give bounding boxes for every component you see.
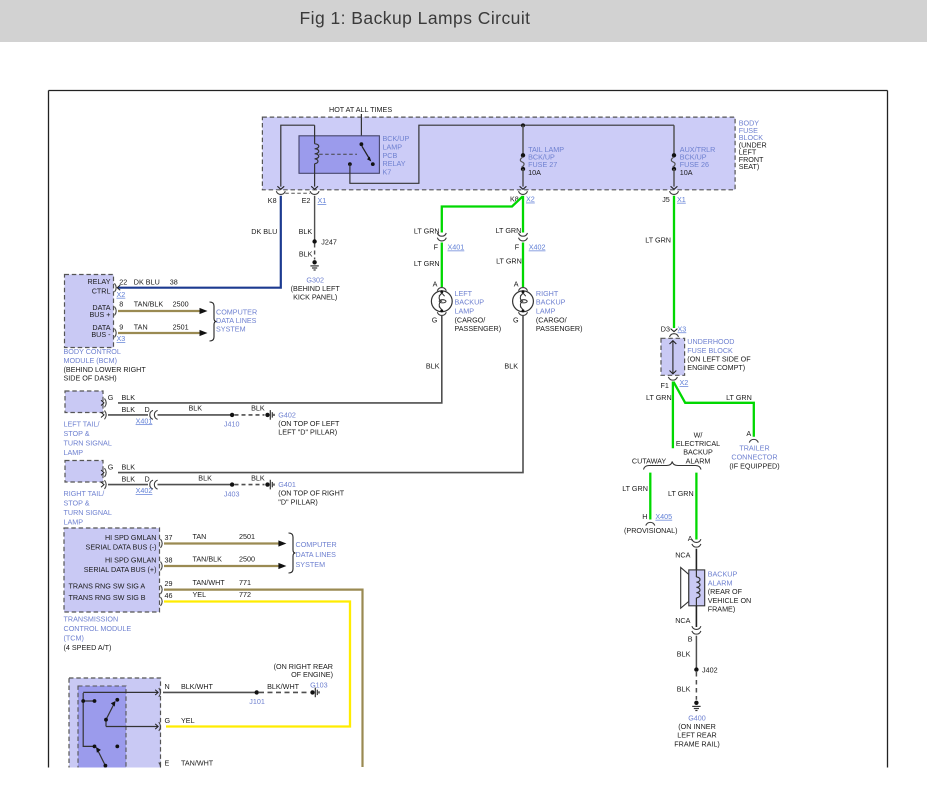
label: DK BLU (251, 227, 277, 236)
svg-text:STOP &: STOP & (64, 499, 90, 508)
svg-text:(PROVISIONAL): (PROVISIONAL) (624, 526, 678, 535)
svg-text:BLK: BLK (198, 473, 212, 482)
svg-text:G302: G302 (306, 275, 324, 284)
svg-text:A: A (433, 279, 438, 288)
right tail pin D wire BLK (101, 475, 150, 489)
label: G401 (ON TOP OF RIGHT D PILLAR) (278, 480, 345, 506)
svg-text:K8: K8 (268, 196, 277, 205)
svg-text:J410: J410 (224, 420, 240, 429)
switch inner dashed box (78, 686, 126, 775)
label: LEFT TAIL/STOP & TURN SIGNAL LAMP (64, 419, 112, 457)
svg-text:ENGINE COMPT): ENGINE COMPT) (687, 363, 745, 372)
svg-text:(BEHIND LOWER RIGHT: (BEHIND LOWER RIGHT (64, 365, 147, 374)
label: G302 (BEHIND LEFT KICK PANEL) (291, 275, 341, 301)
svg-text:BLK: BLK (299, 250, 313, 259)
svg-text:G401: G401 (278, 480, 296, 489)
svg-text:LEFT TAIL/: LEFT TAIL/ (64, 419, 100, 428)
svg-text:LT GRN: LT GRN (668, 489, 694, 498)
svg-text:DATA LINES: DATA LINES (296, 550, 337, 559)
wire: BLK left lamp ground to left tail lamp (118, 316, 442, 403)
BCM pin 22 (RELAY CTRL) (115, 277, 178, 292)
wire: BLK right lamp ground to right tail lamp (118, 316, 523, 473)
svg-text:38: 38 (165, 556, 173, 565)
right tail pin G (101, 463, 135, 477)
left tail pin G (101, 393, 135, 407)
svg-text:PASSENGER): PASSENGER) (536, 324, 583, 333)
svg-text:(ON INNER: (ON INNER (678, 722, 716, 731)
label: fuse 27 (528, 145, 564, 177)
label: fuse 26 (680, 145, 716, 177)
wire: BLK from E2 to J247 (299, 196, 315, 242)
label: relay name (383, 134, 410, 177)
svg-text:ELECTRICAL: ELECTRICAL (676, 439, 720, 448)
svg-text:LAMP: LAMP (455, 307, 475, 316)
svg-text:YEL: YEL (193, 590, 207, 599)
svg-text:NCA: NCA (675, 551, 690, 560)
svg-text:2501: 2501 (173, 323, 189, 332)
svg-text:FRAME RAIL): FRAME RAIL) (674, 739, 720, 748)
svg-text:BACKUP: BACKUP (708, 570, 738, 579)
svg-text:X405: X405 (655, 512, 672, 521)
svg-text:FRAME): FRAME) (708, 605, 736, 614)
svg-text:BUS +: BUS + (90, 310, 111, 319)
svg-text:H: H (642, 512, 647, 521)
connector X2 pin K8 (fuse 27 output) (510, 186, 535, 203)
connector X402 (tail, in-line) (136, 480, 158, 495)
svg-text:J402: J402 (702, 665, 718, 674)
svg-text:(CARGO/: (CARGO/ (455, 315, 486, 324)
underhood fuse block (dashed box) (661, 338, 685, 375)
svg-text:BLK/WHT: BLK/WHT (181, 682, 214, 691)
wire: LT GRN provisional branch (622, 473, 650, 520)
svg-text:9: 9 (119, 323, 123, 332)
svg-text:TRANS RNG SW SIG A: TRANS RNG SW SIG A (69, 582, 146, 591)
svg-text:22: 22 (119, 277, 127, 286)
label: LEFT BACKUP LAMP (CARGO/PASSENGER) (455, 289, 502, 333)
svg-text:2500: 2500 (173, 300, 189, 309)
switch contacts (81, 693, 119, 772)
brace: computer data lines system (BCM) (210, 302, 217, 341)
svg-text:"D" PILLAR): "D" PILLAR) (278, 497, 317, 506)
label: BODY FUSE BLOCK (UNDER LEFT FRONT SEAT) (739, 119, 767, 172)
svg-text:10A: 10A (528, 168, 541, 177)
wire: LT GRN from J5 to underhood fuse block (645, 196, 674, 328)
svg-text:TAN: TAN (134, 323, 148, 332)
svg-text:29: 29 (165, 579, 173, 588)
label: COMPUTER DATA LINES SYSTEM (216, 308, 257, 334)
title bar: Fig 1 Backup Lamps Circuit (0, 0, 927, 42)
svg-text:2501: 2501 (239, 532, 255, 541)
right tail/stop lamp (dashed box) (65, 461, 103, 483)
svg-text:TAN: TAN (193, 532, 207, 541)
label: UNDERHOOD FUSE BLOCK (ON LEFT SIDE OF ENGINE COMPT) (687, 337, 751, 372)
svg-text:RIGHT TAIL/: RIGHT TAIL/ (64, 489, 105, 498)
brace: cutaway options (horizontal) (644, 462, 702, 470)
svg-text:LAMP: LAMP (64, 518, 84, 527)
wire dashed BLK to splice G402 (235, 404, 265, 415)
svg-text:W/: W/ (694, 430, 703, 439)
svg-text:LEFT REAR: LEFT REAR (677, 731, 716, 740)
TCM pin 29 wire TAN/WHT 771 to switch pin E (161, 578, 363, 767)
park/neutral position switch (outer dashed box, cropped) (69, 678, 161, 775)
svg-text:LT GRN: LT GRN (496, 257, 522, 266)
label: RIGHT BACKUP LAMP (CARGO/PASSENGER) (536, 289, 583, 333)
label: TRANSMISSION CONTROL MODULE (TCM) (4 SPEED A/T) (64, 614, 132, 652)
svg-text:(REAR OF: (REAR OF (708, 587, 743, 596)
fuse F27 (TAIL LAMP BCK/UP FUSE 27 10A) (520, 125, 525, 186)
splice/ground G402 (265, 410, 274, 420)
junction J410 (224, 413, 240, 429)
left backup lamp (431, 279, 452, 324)
wire: dashed BLK to ground (299, 244, 315, 260)
svg-text:D: D (145, 405, 150, 414)
connector X401 (in-line) (434, 233, 465, 252)
svg-text:38: 38 (170, 277, 178, 286)
switch pin G (YEL) (106, 716, 195, 731)
svg-text:LT GRN: LT GRN (646, 393, 672, 402)
svg-text:BLK: BLK (677, 685, 691, 694)
svg-text:BACKUP: BACKUP (536, 298, 566, 307)
underhood fuse element (670, 341, 677, 374)
connector pin B (backup alarm) (688, 626, 701, 643)
svg-text:TRANS RNG SW SIG B: TRANS RNG SW SIG B (69, 593, 146, 602)
left tail pin D wire BLK (101, 405, 150, 419)
svg-text:10A: 10A (680, 168, 693, 177)
wire: LT GRN connectors to lamp terminals (442, 243, 523, 288)
svg-text:(ON TOP OF LEFT: (ON TOP OF LEFT (278, 419, 340, 428)
svg-text:X2: X2 (680, 378, 689, 387)
svg-text:X402: X402 (136, 486, 153, 495)
svg-text:RELAY: RELAY (87, 277, 110, 286)
label: G402 (ON TOP OF LEFT LEFT D PILLAR) (278, 410, 340, 436)
wire BLK to junction J410 (158, 404, 233, 415)
wire dashed BLK to ground G400 (677, 672, 697, 700)
svg-text:X402: X402 (529, 243, 546, 252)
svg-text:CONNECTOR: CONNECTOR (731, 452, 777, 461)
svg-text:LT GRN: LT GRN (414, 226, 440, 235)
BCM internal pin names (87, 277, 111, 339)
svg-text:BLK: BLK (122, 405, 136, 414)
wire: battery feed into relay switch (360, 114, 362, 143)
svg-text:B: B (688, 635, 693, 644)
wire dashed BLK to splice G401 (235, 473, 265, 484)
svg-text:X401: X401 (448, 243, 465, 252)
ground G400 (692, 701, 700, 711)
svg-text:VEHICLE ON: VEHICLE ON (708, 596, 752, 605)
svg-text:DK BLU: DK BLU (134, 277, 160, 286)
svg-text:F: F (515, 243, 520, 252)
svg-text:STOP &: STOP & (64, 429, 90, 438)
TCM pin 38 wire TAN/BLK 2500 (161, 555, 287, 571)
svg-text:HOT AT ALL TIMES: HOT AT ALL TIMES (329, 105, 392, 114)
node: HOT AT ALL TIMES (329, 105, 392, 114)
trailer connector pin A (746, 429, 758, 443)
svg-text:BLK: BLK (426, 362, 440, 371)
BCM pin 8 DATA BUS + wire TAN/BLK 2500 (115, 300, 208, 316)
svg-text:TAN/BLK: TAN/BLK (134, 300, 164, 309)
svg-text:2500: 2500 (239, 555, 255, 564)
svg-text:RIGHT: RIGHT (536, 289, 559, 298)
svg-text:TURN SIGNAL: TURN SIGNAL (64, 508, 112, 517)
svg-text:J101: J101 (249, 697, 265, 706)
svg-text:772: 772 (239, 590, 251, 599)
svg-text:A: A (688, 534, 693, 543)
svg-text:OF ENGINE): OF ENGINE) (291, 670, 333, 679)
svg-text:SERIAL DATA BUS (+): SERIAL DATA BUS (+) (84, 565, 157, 574)
svg-text:X2: X2 (117, 290, 126, 299)
svg-text:BLK: BLK (189, 404, 203, 413)
svg-text:CUTAWAY: CUTAWAY (632, 456, 667, 465)
svg-text:YEL: YEL (181, 716, 195, 725)
svg-text:LEFT "D" PILLAR): LEFT "D" PILLAR) (278, 428, 337, 437)
svg-text:G400: G400 (688, 713, 706, 722)
svg-text:BACKUP: BACKUP (683, 448, 713, 457)
svg-text:HI SPD GMLAN: HI SPD GMLAN (105, 556, 157, 565)
svg-text:N: N (165, 682, 170, 691)
svg-text:(4 SPEED A/T): (4 SPEED A/T) (64, 643, 112, 652)
svg-text:KICK PANEL): KICK PANEL) (293, 293, 337, 302)
switch pin N wire BLK/WHT to J101 (83, 682, 257, 697)
svg-text:SERIAL DATA BUS (-): SERIAL DATA BUS (-) (86, 543, 157, 552)
svg-text:X1: X1 (677, 195, 686, 204)
svg-text:LT GRN: LT GRN (622, 484, 648, 493)
svg-text:X3: X3 (117, 334, 126, 343)
svg-text:TAN/BLK: TAN/BLK (193, 555, 223, 564)
svg-text:J247: J247 (321, 237, 337, 246)
svg-text:X1: X1 (318, 196, 327, 205)
TCM pin 37 wire TAN 2501 (161, 532, 287, 548)
svg-text:G103: G103 (310, 680, 328, 689)
svg-text:TAN/WHT: TAN/WHT (193, 578, 226, 587)
label: TRAILER CONNECTOR (IF EQUIPPED) (729, 443, 779, 470)
junction J403 (224, 482, 240, 498)
fuse F26 (AUX/TRLR BCK/UP FUSE 26 10A) (671, 125, 676, 186)
svg-text:A: A (514, 279, 519, 288)
svg-text:A: A (746, 429, 751, 438)
diagram border frame (49, 91, 888, 768)
connector X401 (tail, in-line) (136, 410, 158, 425)
connector pin A (backup alarm) (688, 534, 701, 547)
wire BLK to junction J403 (158, 473, 233, 484)
wire: LT GRN split below F1 (673, 382, 754, 449)
svg-text:8: 8 (119, 300, 123, 309)
wire: DK BLU relay control to BCM pin 22 (118, 196, 281, 288)
relay K7 (BCK/UP LAMP PCB RELAY) (281, 125, 380, 186)
svg-text:DK BLU: DK BLU (251, 227, 277, 236)
svg-text:BLK: BLK (251, 473, 265, 482)
wire NCA below alarm (675, 606, 696, 627)
wire: relay switch output to fuses feed (350, 125, 674, 183)
svg-text:LT GRN: LT GRN (414, 259, 440, 268)
svg-text:G: G (432, 315, 438, 324)
connector X402 (in-line) (515, 233, 546, 252)
svg-text:TRANSMISSION: TRANSMISSION (64, 614, 119, 623)
svg-text:CTRL: CTRL (92, 286, 111, 295)
svg-text:HI SPD GMLAN: HI SPD GMLAN (105, 533, 157, 542)
svg-text:SEAT): SEAT) (739, 162, 760, 171)
svg-text:E2: E2 (302, 196, 311, 205)
connector X2 pin F1 (661, 377, 689, 390)
svg-text:SYSTEM: SYSTEM (296, 560, 326, 569)
wire BLK to J402 (677, 636, 697, 670)
svg-text:(TCM): (TCM) (64, 634, 84, 643)
left tail/stop lamp (dashed box) (65, 391, 103, 413)
splice/ground G401 (265, 480, 274, 490)
svg-text:BLK: BLK (122, 463, 136, 472)
label: G400 (ON INNER LEFT REAR FRAME RAIL) (674, 713, 720, 748)
ground G302 (310, 260, 318, 270)
body control module BCM (dashed box) (65, 275, 114, 348)
svg-text:CONTROL MODULE: CONTROL MODULE (64, 624, 132, 633)
label: BACKUP ALARM (REAR OF VEHICLE ON FRAME) (708, 570, 752, 614)
junction J247 (312, 237, 336, 246)
svg-text:MODULE (BCM): MODULE (BCM) (64, 356, 118, 365)
svg-text:J5: J5 (662, 195, 670, 204)
svg-text:COMPUTER: COMPUTER (296, 540, 337, 549)
svg-text:46: 46 (165, 591, 173, 600)
label LT GRN (x4) (414, 226, 522, 268)
svg-text:J403: J403 (224, 489, 240, 498)
svg-text:SYSTEM: SYSTEM (216, 325, 246, 334)
wire NCA to alarm (675, 549, 696, 570)
svg-text:(BEHIND LEFT: (BEHIND LEFT (291, 284, 341, 293)
svg-text:Fig 1: Backup Lamps Circuit: Fig 1: Backup Lamps Circuit (300, 8, 531, 28)
svg-text:BLK: BLK (299, 227, 313, 236)
svg-text:BLK: BLK (122, 393, 136, 402)
svg-text:X3: X3 (678, 324, 687, 333)
svg-text:(ON TOP OF RIGHT: (ON TOP OF RIGHT (278, 489, 345, 498)
label: RIGHT TAIL/STOP & TURN SIGNAL LAMP (64, 489, 112, 527)
svg-text:BLK: BLK (504, 362, 518, 371)
svg-text:SIDE OF DASH): SIDE OF DASH) (64, 374, 117, 383)
svg-text:LT GRN: LT GRN (726, 393, 752, 402)
svg-text:X401: X401 (136, 416, 153, 425)
label: CUTAWAY (632, 456, 667, 465)
svg-text:BUS -: BUS - (91, 330, 111, 339)
wire: LT GRN to backup alarm (668, 473, 696, 540)
svg-text:X2: X2 (526, 195, 535, 204)
svg-text:D: D (145, 475, 150, 484)
svg-text:G402: G402 (278, 410, 296, 419)
label: G103 (ON RIGHT REAR OF ENGINE) (274, 662, 333, 689)
connector X1 pin K8 (body fuse block) (268, 186, 285, 205)
label: COMPUTER DATA LINES SYSTEM (TCM) (296, 540, 337, 569)
svg-text:G: G (108, 393, 114, 402)
right backup lamp (513, 279, 534, 324)
connector X405 pin H (642, 512, 672, 526)
svg-text:G: G (165, 716, 171, 725)
svg-text:ALARM: ALARM (686, 456, 711, 465)
label: W/ ELECTRICAL BACKUP ALARM (676, 430, 720, 465)
svg-text:TAN/WHT: TAN/WHT (181, 759, 214, 768)
junction J402 (694, 665, 717, 674)
svg-text:E: E (165, 759, 170, 768)
brace: computer data lines system (TCM) (289, 533, 296, 573)
wire dashed BLK/WHT to splice G103 (259, 682, 310, 692)
switch pin E (TAN/WHT, cropped) (159, 759, 214, 772)
splice/ground G103 (310, 688, 319, 698)
backup alarm (speaker) (681, 568, 705, 609)
connector X1 pin E2 (285, 186, 326, 205)
svg-text:BACKUP: BACKUP (455, 298, 485, 307)
svg-text:LT GRN: LT GRN (496, 226, 522, 235)
svg-text:(IF EQUIPPED): (IF EQUIPPED) (729, 461, 779, 470)
svg-text:BLK: BLK (122, 475, 136, 484)
svg-text:F1: F1 (661, 381, 669, 390)
svg-text:G: G (513, 315, 519, 324)
connector X3 label (BCM) (117, 334, 126, 343)
wire: LT GRN from X2 split to left/right backup lamps (442, 196, 523, 233)
label: (PROVISIONAL) (624, 526, 678, 535)
labels LT GRN below F1 (646, 393, 752, 402)
TCM pin 46 wire YEL 772 to switch pin G (161, 590, 351, 727)
svg-text:TURN SIGNAL: TURN SIGNAL (64, 439, 112, 448)
svg-text:K7: K7 (383, 168, 392, 177)
svg-text:G: G (108, 463, 114, 472)
svg-text:LAMP: LAMP (536, 307, 556, 316)
svg-text:BLK: BLK (677, 650, 691, 659)
svg-text:ALARM: ALARM (708, 578, 733, 587)
svg-text:LAMP: LAMP (64, 448, 84, 457)
svg-text:LEFT: LEFT (455, 289, 473, 298)
svg-text:BODY CONTROL: BODY CONTROL (64, 347, 121, 356)
junction J101 (249, 690, 265, 706)
svg-text:D3: D3 (661, 324, 670, 333)
svg-text:BLK: BLK (251, 404, 265, 413)
connector X3 pin D3 (661, 324, 687, 337)
svg-text:771: 771 (239, 578, 251, 587)
svg-text:F: F (434, 243, 439, 252)
label: BODY CONTROL MODULE (BCM) location (64, 347, 147, 382)
BCM pin 9 DATA BUS - wire TAN 2501 (115, 323, 208, 338)
svg-text:(CARGO/: (CARGO/ (536, 315, 567, 324)
TCM internal pin names (69, 533, 157, 602)
svg-text:LT GRN: LT GRN (645, 235, 671, 244)
junction: feed tap to fuse 27 (521, 123, 525, 127)
svg-text:TRAILER: TRAILER (739, 443, 769, 452)
transmission control module TCM (dashed box) (64, 528, 160, 612)
svg-text:PASSENGER): PASSENGER) (455, 324, 502, 333)
svg-text:NCA: NCA (675, 616, 690, 625)
connector X1 pin J5 (fuse 26 output) (662, 186, 686, 204)
connector X2 label (BCM) (117, 290, 126, 299)
svg-text:37: 37 (165, 533, 173, 542)
svg-text:BLK/WHT: BLK/WHT (267, 682, 300, 691)
body fuse block (dashed container) (262, 117, 735, 190)
